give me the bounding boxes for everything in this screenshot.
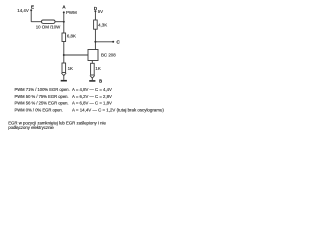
svg-text:D: D [94, 6, 97, 11]
arrow down right [90, 76, 95, 79]
arrow down left [61, 73, 66, 76]
junction C [94, 41, 96, 43]
svg-text:6,8K: 6,8K [67, 34, 76, 39]
resistor R4 4,3K [94, 20, 98, 29]
wire E to resistor [31, 21, 41, 23]
wire to collector junction [94, 29, 96, 49]
wire D vertical [94, 11, 96, 20]
resistor R1 10 OM/10W [42, 20, 56, 23]
svg-text:14,4V: 14,4V [17, 8, 29, 13]
svg-text:PWM: PWM [66, 10, 77, 15]
svg-text:5V: 5V [98, 9, 103, 14]
junction A [63, 21, 65, 23]
svg-text:B: B [99, 79, 102, 84]
node D dot [94, 10, 96, 12]
wire base [64, 54, 88, 56]
svg-text:A = 6,2V — C = 2,8V: A = 6,2V — C = 2,8V [72, 94, 112, 99]
svg-text:PWM 0% / 0% EGR open.: PWM 0% / 0% EGR open. [15, 108, 63, 113]
wire resistor to node A junction [55, 21, 64, 23]
wire A vertical [63, 12, 65, 33]
resistor R2 6,8K [62, 33, 66, 42]
junction base [63, 54, 65, 56]
svg-text:E: E [31, 5, 34, 10]
svg-text:A = 14,4V — C = 1,2V (tutaj br: A = 14,4V — C = 1,2V (tutaj brak oscylog… [72, 108, 164, 113]
node E [30, 9, 32, 11]
svg-text:podłączony elektrycznie: podłączony elektrycznie [8, 125, 54, 130]
wire to node C [95, 41, 113, 43]
svg-text:PWM 50 % / 75% EGR open.: PWM 50 % / 75% EGR open. [15, 94, 69, 99]
wire E vertical [30, 10, 32, 21]
svg-text:1K: 1K [95, 66, 100, 71]
node C dot [112, 41, 114, 43]
wire emitter [91, 61, 93, 64]
svg-text:1K: 1K [68, 66, 73, 71]
resistor R5 1K right [91, 63, 95, 75]
svg-text:10 OM /10W: 10 OM /10W [36, 25, 61, 30]
svg-text:A = 4,8V — C = 4,4V: A = 4,8V — C = 4,4V [72, 87, 112, 92]
svg-text:PWM 56 % / 25% EGR open.: PWM 56 % / 25% EGR open. [15, 101, 69, 106]
svg-text:BC 208: BC 208 [101, 52, 116, 57]
transistor Q1 BC 208 box [88, 50, 98, 61]
resistor R3 1K left [62, 63, 66, 73]
node A dot [63, 11, 65, 13]
svg-text:A = 6,8V — C = 1,8V: A = 6,8V — C = 1,8V [72, 101, 112, 106]
wire to base junction [63, 42, 65, 64]
svg-text:A: A [63, 4, 66, 9]
svg-text:4,3K: 4,3K [98, 23, 107, 28]
svg-text:PWM 71% / 100% EGR open.: PWM 71% / 100% EGR open. [15, 87, 70, 92]
svg-text:C: C [117, 39, 120, 44]
